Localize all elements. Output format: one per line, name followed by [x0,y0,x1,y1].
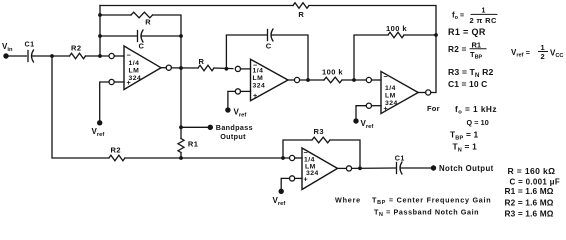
wire R3 feedback [283,140,360,168]
resistor 100k (U2 to U3) [322,67,343,82]
wire U2 + input to Vref [228,91,235,107]
svg-text:R3 = 1.6 MΩ: R3 = 1.6 MΩ [505,209,554,219]
svg-text:LM: LM [129,68,140,75]
svg-text:C: C [266,42,272,51]
svg-text:1: 1 [541,43,545,52]
svg-text:−: − [127,51,132,60]
resistor R (U1 to U2) [198,57,214,71]
wire R2 to op-amp U1 inverting input [86,55,109,57]
node bandpass junction [179,125,183,129]
node U3 input junction [352,78,356,82]
svg-text:Bandpass: Bandpass [216,123,253,132]
resistor R (U1 local feedback) [131,12,152,26]
wire U4 output row [352,167,431,169]
svg-text:R = 160 kΩ: R = 160 kΩ [508,166,556,176]
svg-text:100 k: 100 k [322,67,343,76]
op-amp U4 [290,148,352,190]
wire Vin to C1 [6,55,27,57]
svg-text:Notch Output: Notch Output [439,164,494,173]
node R1 bottom junction [179,156,183,160]
svg-text:R2 = 1.6 MΩ: R2 = 1.6 MΩ [505,198,554,208]
note For fo = 1 kHz [427,104,497,116]
formula fo = 1/(2 pi RC) [452,8,497,25]
op-amp U2 [235,59,299,100]
svg-text:C1: C1 [395,153,405,162]
svg-text:−: − [384,72,389,81]
wire U4 + input to Vref [281,178,289,188]
formula Vref = 1/2 Vcc [511,43,563,61]
svg-text:2: 2 [541,52,545,61]
resistor 100k (U3 feedback) [386,24,407,38]
svg-text:C: C [139,42,145,51]
op-amp U1 [109,46,171,90]
svg-text:LM: LM [253,75,264,82]
wire node A vertical [99,6,101,57]
op-amp U3 [366,72,431,114]
formula R2 = R1/TBP [448,40,486,60]
svg-text:2 π RC: 2 π RC [470,16,497,25]
node Vin terminal [2,42,13,59]
svg-text:324: 324 [306,170,319,177]
svg-text:R1 = 1.6 MΩ: R1 = 1.6 MΩ [505,186,554,196]
svg-text:R: R [145,17,151,26]
node A junction [98,54,102,58]
svg-text:fo = 1 kHz: fo = 1 kHz [455,104,497,116]
capacitor C (U1 feedback) [138,30,145,51]
wire U2 output row [300,79,367,81]
resistor R1 (vertical) [178,139,198,153]
resistor R3 [312,127,330,143]
wire bandpass stub [181,126,208,128]
node Bandpass Output terminal [208,123,253,141]
node Vref U4 terminal [273,189,286,207]
node U2 input junction [225,67,229,71]
svg-text:+: + [253,91,258,100]
resistor R2 (top) [70,43,86,59]
node Vref U2 terminal [225,107,246,118]
svg-text:Q = 10: Q = 10 [467,118,489,127]
node D junction [50,54,54,58]
node Vref U3 terminal [353,118,373,130]
node U4 output junction [358,166,362,170]
svg-text:R2 =: R2 = [448,44,467,54]
node U1 output junction [179,66,183,70]
svg-text:R1: R1 [472,40,482,49]
capacitor C1 (input) [25,40,35,63]
capacitor C1 (output) [395,153,405,174]
resistor R2 (bottom) [109,146,125,161]
svg-text:Where: Where [335,196,361,205]
svg-text:R3: R3 [314,127,324,136]
resistor R (top feedback) [293,3,309,19]
svg-text:For: For [427,104,440,113]
node A-C junction [98,34,102,38]
wire R feedback line op U1 [100,15,181,36]
wire right column to U3 output [431,35,436,93]
svg-text:R2: R2 [71,43,81,52]
wire U3 + input to Vref [356,106,366,119]
svg-text:C = 0.001 μF: C = 0.001 μF [510,177,561,186]
svg-text:R: R [298,10,304,19]
wire C1 to node D [33,55,70,57]
svg-text:R: R [199,57,205,66]
svg-text:324: 324 [253,83,266,90]
wire U1 output row [171,67,233,70]
svg-text:R2: R2 [111,146,121,155]
node U1 feedback-C junction [179,34,183,38]
svg-text:R1 = QR: R1 = QR [448,27,486,37]
svg-text:Output: Output [220,132,246,141]
svg-text:1/4: 1/4 [253,68,264,75]
node feedback top junction [434,33,438,37]
svg-text:1: 1 [482,8,486,15]
svg-text:100 k: 100 k [386,24,407,33]
svg-text:C1 = 10 C: C1 = 10 C [448,79,487,89]
node Notch Output terminal [431,164,494,173]
svg-text:324: 324 [129,75,142,82]
wire top feedback (node A to inverter output) [100,6,436,36]
wire U2 feedback C [226,35,308,80]
svg-text:1/4: 1/4 [129,60,140,67]
svg-text:324: 324 [385,100,398,107]
node R3 left junction [281,156,285,160]
capacitor C (U2 feedback) [266,29,273,51]
node A-R junction [98,13,102,17]
wire node D down and bottom row to U4 [52,56,290,158]
node Vref U1 terminal [92,120,105,138]
svg-text:LM: LM [385,93,396,100]
svg-text:C1: C1 [25,40,35,49]
svg-text:1/4: 1/4 [385,85,396,92]
wire U1 + input to Vref [100,82,109,121]
wire U3 100k feedback [354,35,436,80]
node U2 output junction [306,78,310,82]
svg-text:R1: R1 [188,139,198,148]
wire C feedback line op U1 [100,35,181,37]
wire U1 output column down to bandpass and R1 [180,36,182,158]
